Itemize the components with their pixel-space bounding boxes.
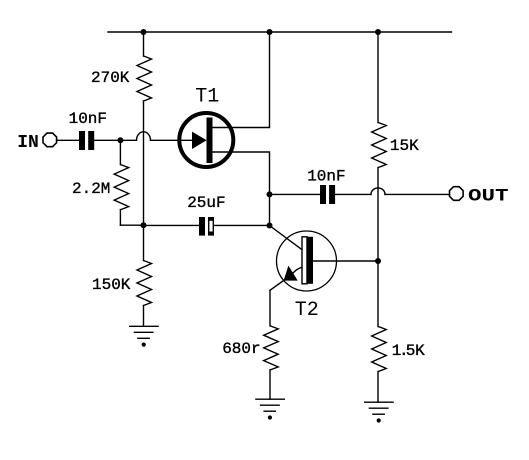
wire rail to 270K top [143,32,145,56]
resistor 1.5K [377,261,379,327]
node junction top rail / 15K [375,29,381,35]
resistor 150K [143,225,145,260]
node junction top rail / T1 collector [267,29,273,35]
wire emitter node to output cap [270,193,321,195]
wire top supply rail [108,31,452,33]
svg-text:10nF: 10nF [69,110,107,128]
node junction top rail / 270K [141,29,147,35]
wire hop over 15K line [371,188,385,195]
svg-text:680r: 680r [222,340,260,358]
wire 25uF to emitter node [214,224,270,226]
svg-text:25uF: 25uF [187,194,225,212]
svg-text:OUT: OUT [468,186,508,206]
wire output cap to hop [335,193,371,195]
svg-text:1.5K: 1.5K [392,342,425,360]
wire input node to hop [120,139,136,141]
wire IN terminal to C1 [57,139,79,141]
resistor 680r [269,290,271,326]
node T1 emitter / output cap [267,191,273,197]
wire T2 base diagonal [270,226,302,250]
terminal OUT [450,187,464,201]
wire hop over 270K line [137,132,151,141]
svg-text:10nF: 10nF [307,167,345,185]
transistor T2 [270,231,337,291]
svg-text:270K: 270K [91,69,130,87]
wire T2 collector to 15K/1.5K node [313,260,378,262]
svg-text:T2: T2 [295,299,319,322]
wire hop to T1 base [151,139,193,141]
resistor 2.2M [119,140,121,164]
transistor T1 [179,113,233,167]
svg-text:15K: 15K [390,137,419,155]
capacitor 10nF output [320,185,335,204]
node emitter / 25uF / T2 base [267,223,273,229]
wire C1 to input node [94,139,120,141]
svg-text:150K: 150K [92,276,131,294]
wire T1 emitter down [213,152,270,194]
ground below 150K [130,325,158,327]
wire emitter node down [269,194,271,225]
resistor 270K [137,56,152,101]
node bias junction 270K/2.2M/150K/25uF [141,222,147,228]
wire 270K bottom down to bias node (passes under hop) [143,101,145,225]
ground below 1.5K [365,401,393,403]
terminal IN [43,133,57,147]
capacitor 10nF input [79,131,94,150]
wire hop to OUT terminal [385,193,450,195]
wire T1 collector to rail [213,32,270,128]
ground below 680r [256,398,284,400]
resistor 15K [377,32,379,123]
capacitor 25uF [144,224,200,226]
node input / T1 base / 2.2M [117,137,123,143]
svg-text:2.2M: 2.2M [72,180,110,198]
wire 2.2M bottom to bias node [120,224,143,226]
svg-text:T1: T1 [195,86,219,109]
node T2 collector / 15K / 1.5K [375,258,381,264]
svg-text:IN: IN [17,133,39,153]
